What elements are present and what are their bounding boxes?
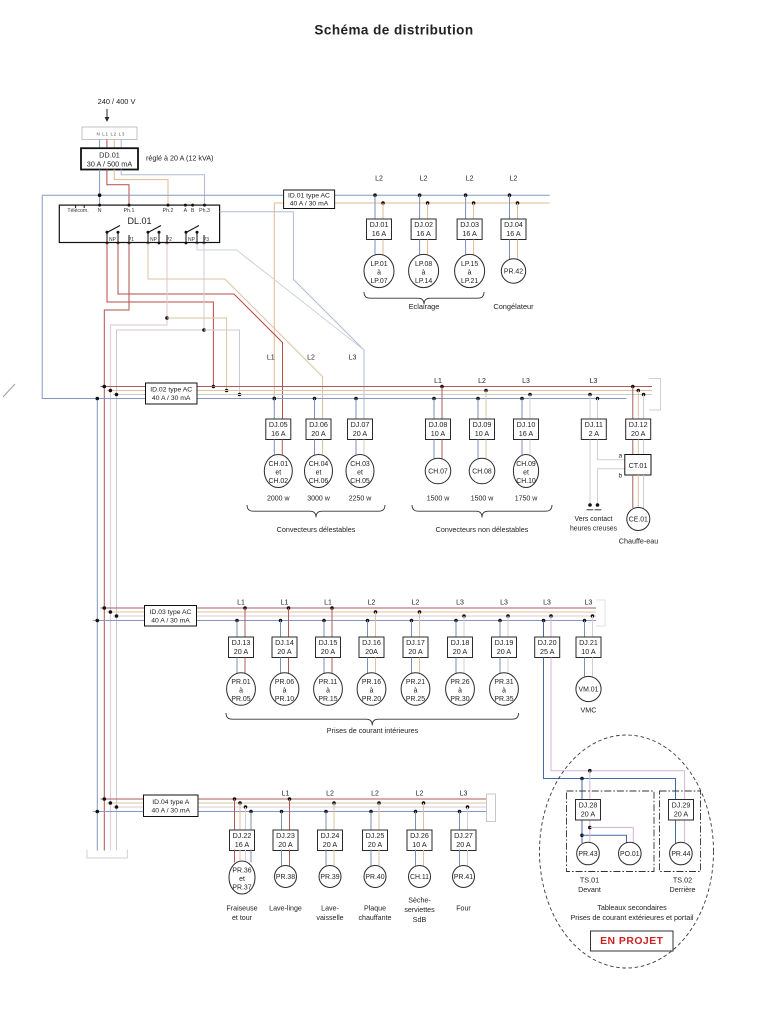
- svg-text:à: à: [414, 688, 418, 695]
- svg-text:CH.03: CH.03: [350, 461, 370, 468]
- node L3 tap DJ.12: [642, 393, 646, 397]
- wire phase to load: [378, 850, 380, 867]
- svg-text:et: et: [316, 470, 322, 477]
- breaker DJ.23 20 A: [273, 830, 298, 851]
- svg-text:ID.03 type AC: ID.03 type AC: [150, 609, 192, 616]
- wire N bus row1: [42, 194, 549, 196]
- svg-text:L3: L3: [543, 600, 551, 607]
- svg-text:vaisselle: vaisselle: [316, 914, 343, 922]
- svg-text:10 A: 10 A: [475, 429, 490, 438]
- wire L1 bus row2: [101, 386, 653, 388]
- svg-text:à: à: [239, 688, 243, 695]
- break mark: [3, 384, 15, 397]
- breaker DJ.05 16 A: [266, 419, 291, 440]
- svg-text:heures creuses: heures creuses: [570, 526, 618, 533]
- node N tap DJ.21: [583, 619, 587, 623]
- svg-text:CT.01: CT.01: [629, 461, 648, 470]
- wire L3 DJ.29 to PR.44: [684, 821, 686, 844]
- wire L3 CT.01 to CE.01: [643, 475, 645, 508]
- wire phase drop: [467, 807, 469, 830]
- wire L2 bus row3: [107, 611, 597, 613]
- wire L2 DD.01 to DL.01 Ph.2: [114, 170, 168, 206]
- node N tap: [324, 810, 328, 814]
- svg-text:CE.01: CE.01: [629, 516, 648, 523]
- panel TS.01 frame: [567, 791, 655, 872]
- node N tap: [98, 193, 102, 197]
- svg-text:PR.06: PR.06: [275, 679, 294, 686]
- node N tap: [235, 619, 239, 623]
- svg-text:L1: L1: [267, 355, 275, 362]
- wire phase drop: [441, 387, 443, 420]
- wire to heures creuses contact: [589, 440, 591, 506]
- wire phase to load: [419, 658, 421, 675]
- bus end bracket row3: [596, 600, 605, 626]
- wire L2 drop: [517, 203, 519, 219]
- svg-text:ID.04 type A: ID.04 type A: [152, 799, 189, 806]
- wire N bus row3: [93, 620, 596, 622]
- node L3 tap DJ.21: [591, 614, 595, 618]
- wire N drop: [509, 195, 511, 219]
- wire N bus row2: [42, 398, 626, 400]
- wire phase drop: [288, 608, 290, 637]
- wire phase to load: [375, 658, 377, 675]
- svg-text:L2: L2: [466, 176, 474, 183]
- svg-text:CH.07: CH.07: [428, 468, 448, 475]
- node N branch TS.01: [580, 777, 584, 781]
- wire L2 CT.01 to CE.01: [637, 475, 639, 508]
- RCD ID.01: [284, 190, 335, 209]
- node L3 bus feed: [238, 393, 242, 397]
- svg-text:20 A: 20 A: [277, 647, 292, 656]
- wire N bus row4: [93, 811, 487, 813]
- svg-text:L1: L1: [237, 600, 245, 607]
- breaker DJ.26 10 A: [407, 830, 432, 851]
- svg-text:PR.37: PR.37: [232, 885, 251, 892]
- svg-text:PR.36: PR.36: [232, 867, 251, 874]
- svg-text:EN PROJET: EN PROJET: [600, 936, 664, 947]
- wire N drop: [236, 621, 238, 638]
- svg-text:3000 w: 3000 w: [307, 495, 331, 502]
- wire L2 feeder: [110, 243, 167, 851]
- wire phase to load: [423, 850, 425, 867]
- svg-text:L2: L2: [368, 600, 376, 607]
- svg-text:N: N: [98, 208, 102, 214]
- node feeder tap row4: [103, 797, 107, 801]
- wire L3 into DD.01: [120, 140, 122, 149]
- wire L3 drop DJ.20: [550, 616, 552, 637]
- load CH.11: [409, 866, 431, 888]
- wire phase to load: [333, 850, 335, 867]
- breaker DJ.17 20 A: [403, 637, 428, 658]
- wire L1 to bus row2: [107, 243, 213, 387]
- wire N to load: [521, 440, 523, 457]
- wire N to load: [499, 658, 501, 675]
- node N tap: [476, 397, 480, 401]
- svg-text:LP.01: LP.01: [370, 261, 387, 268]
- breaker DJ.22 16A three-phase: [233, 797, 237, 801]
- wire phase drop: [419, 612, 421, 637]
- wire N feeder: [96, 399, 98, 851]
- svg-text:et: et: [357, 470, 363, 477]
- node L2 tap: [472, 201, 476, 205]
- svg-text:Lave-: Lave-: [321, 905, 339, 913]
- svg-text:NP: NP: [150, 237, 158, 243]
- wire L2 to DJ.06: [148, 243, 323, 419]
- svg-text:PR.30: PR.30: [450, 696, 469, 703]
- wire L2 drop: [427, 203, 429, 219]
- svg-text:L2: L2: [307, 355, 315, 362]
- svg-text:Ph.3: Ph.3: [199, 208, 210, 214]
- node N tap: [322, 619, 326, 623]
- svg-text:CH.04: CH.04: [309, 461, 329, 468]
- wire N to DJ.28: [581, 779, 583, 800]
- node feeder tap row3: [96, 619, 100, 623]
- svg-text:20 A: 20 A: [453, 647, 468, 656]
- wire N drop: [521, 399, 523, 420]
- wire N drop: [355, 399, 357, 420]
- wire L2 bus row2: [107, 390, 653, 392]
- node L2 riser junction: [273, 397, 277, 401]
- wire N to load: [370, 850, 372, 867]
- svg-text:PR.10: PR.10: [275, 696, 294, 703]
- EN PROJET box: [591, 931, 674, 951]
- svg-text:Derrière: Derrière: [670, 885, 696, 894]
- svg-text:Ph.2: Ph.2: [163, 208, 174, 214]
- svg-text:serviettes: serviettes: [404, 906, 435, 914]
- node L1 bus feed: [212, 385, 216, 389]
- wire N DJ.28 to PR.43: [581, 821, 583, 844]
- wire phase drop: [378, 803, 380, 830]
- wire N drop: [499, 621, 501, 638]
- wire N into DD.01: [99, 140, 101, 149]
- svg-text:réglé à 20 A (12 kVA): réglé à 20 A (12 kVA): [146, 154, 213, 163]
- node L3 branch TS.01: [588, 769, 592, 773]
- RCD ID.03: [145, 606, 197, 627]
- node L3 tap DJ.20: [549, 614, 553, 618]
- svg-text:Eclairage: Eclairage: [409, 302, 440, 311]
- wire L2 to load: [427, 240, 429, 256]
- supply arrow: [106, 109, 108, 118]
- wire phase to load: [467, 850, 469, 867]
- svg-text:CH.08: CH.08: [472, 468, 492, 475]
- load LP.15 à LP.21: [455, 254, 485, 287]
- wire phase to load: [281, 440, 283, 457]
- load PR.11 à PR.15: [314, 673, 343, 706]
- svg-text:20 A: 20 A: [278, 840, 293, 849]
- brace éclairage group: [364, 292, 484, 304]
- wire L2 bus row4: [107, 802, 488, 804]
- svg-text:PR.01: PR.01: [231, 679, 250, 686]
- node phase tap: [484, 389, 488, 393]
- bus end bracket row2: [649, 379, 661, 411]
- svg-text:Vers contact: Vers contact: [575, 516, 613, 523]
- wire L3 to DJ.07: [197, 243, 364, 350]
- breaker DJ.19 20 A: [492, 637, 517, 658]
- wire phase drop: [333, 803, 335, 830]
- wire L1 DD.01 to DL.01 Ph.1: [107, 170, 129, 206]
- load VM.01 VMC: [576, 676, 601, 701]
- node phase tap: [243, 606, 247, 610]
- svg-text:à: à: [370, 688, 374, 695]
- wire L1 drop DJ.12: [632, 387, 634, 420]
- wire L2 to load: [473, 240, 475, 256]
- load PR.43: [577, 842, 600, 865]
- wire L1 into DD.01: [106, 140, 108, 149]
- node N tap: [369, 810, 373, 814]
- wire L1 bus row3: [101, 607, 597, 609]
- svg-text:1750 w: 1750 w: [515, 495, 539, 502]
- svg-text:PR.16: PR.16: [362, 679, 381, 686]
- node N tap DJ.11: [596, 397, 600, 401]
- svg-text:PR.11: PR.11: [319, 679, 338, 686]
- svg-text:40 A / 30 mA: 40 A / 30 mA: [151, 618, 190, 625]
- breaker DJ.28 20A: [576, 800, 601, 821]
- breaker DJ.03 16 A: [457, 219, 482, 240]
- wire L2 to bus row2: [167, 318, 227, 391]
- svg-text:PR.42: PR.42: [504, 268, 523, 275]
- svg-text:Prises de courant extérieures: Prises de courant extérieures et portail: [570, 913, 693, 922]
- node phase tap: [528, 393, 532, 397]
- wire L3 bus row3: [113, 615, 596, 617]
- wire L3 to PO.01: [590, 828, 634, 844]
- switch P1 in DL.01: [106, 226, 135, 245]
- wire L2 drop: [473, 203, 475, 219]
- wire phase to load: [441, 440, 443, 460]
- svg-text:L2: L2: [371, 791, 379, 798]
- svg-text:LP.08: LP.08: [415, 261, 432, 268]
- svg-text:et: et: [275, 470, 281, 477]
- load PR.01 à PR.05: [227, 673, 256, 706]
- svg-text:16 A: 16 A: [271, 429, 286, 438]
- wire N drop: [477, 399, 479, 420]
- wire phase drop: [375, 612, 377, 637]
- wire phase to load: [322, 440, 324, 457]
- wire N to load: [459, 850, 461, 867]
- breaker DJ.10 16 A: [514, 419, 539, 440]
- breaker DJ.15 20 A: [316, 637, 341, 658]
- svg-text:Convecteurs délestables: Convecteurs délestables: [277, 525, 356, 534]
- main breaker DD.01 30A/500mA: [81, 148, 138, 169]
- feeder end bracket: [87, 850, 127, 859]
- wire phase to load: [244, 658, 246, 675]
- wire N to load: [419, 240, 421, 256]
- load CH.04 et CH.06: [305, 455, 333, 488]
- svg-text:CH.06: CH.06: [309, 478, 329, 485]
- svg-text:et tour: et tour: [232, 914, 253, 922]
- svg-text:L3: L3: [456, 600, 464, 607]
- load CE.01 chauffe-eau: [627, 508, 650, 531]
- svg-text:DL.01: DL.01: [127, 216, 151, 226]
- breaker DJ.12 20A: [626, 419, 651, 440]
- node N tap: [418, 193, 422, 197]
- svg-text:20 A: 20 A: [631, 429, 646, 438]
- wire N to load: [465, 240, 467, 256]
- svg-text:Plaque: Plaque: [364, 905, 386, 913]
- svg-text:L2: L2: [412, 600, 420, 607]
- wire N drop: [323, 621, 325, 638]
- load PO.01: [619, 842, 642, 865]
- svg-text:PR.40: PR.40: [365, 874, 384, 881]
- node L2 tap: [381, 201, 385, 205]
- wire N DD.01 to DL.01: [99, 170, 101, 206]
- wire N drop: [325, 812, 327, 831]
- node L2 tap: [516, 201, 520, 205]
- svg-text:CH.01: CH.01: [269, 461, 289, 468]
- svg-text:PR.21: PR.21: [406, 679, 425, 686]
- wire N drop: [281, 812, 283, 831]
- breaker DJ.14 20 A: [272, 637, 297, 658]
- breaker DJ.01 16 A: [367, 219, 392, 240]
- svg-text:PR.43: PR.43: [578, 851, 597, 858]
- svg-text:PR.38: PR.38: [276, 874, 295, 881]
- svg-text:16 A: 16 A: [416, 229, 431, 238]
- wire N to load: [509, 240, 511, 261]
- wire N to VM.01: [584, 658, 586, 678]
- wire N drop: [374, 195, 376, 219]
- svg-text:PR.39: PR.39: [320, 874, 339, 881]
- node feeder tap row3: [115, 614, 119, 618]
- node phase tap: [422, 801, 426, 805]
- svg-text:20 A: 20 A: [353, 429, 368, 438]
- wire N to load: [415, 850, 417, 867]
- wire N to load: [273, 440, 275, 457]
- node feeder tap row2: [103, 385, 107, 389]
- wire N drop: [459, 812, 461, 831]
- load PR.26 à PR.30: [446, 673, 475, 706]
- bus end terminal row4: [487, 794, 496, 822]
- node phase tap: [287, 606, 291, 610]
- wire pilot A-B to DJ.07: [220, 212, 364, 419]
- node L1 tap DJ.12: [631, 385, 635, 389]
- svg-text:Chauffe-eau: Chauffe-eau: [619, 537, 658, 546]
- svg-text:PR.26: PR.26: [450, 679, 469, 686]
- breaker DJ.27 20 A: [451, 830, 476, 851]
- svg-text:2250 w: 2250 w: [349, 495, 373, 502]
- load LP.08 à LP.14: [409, 254, 439, 287]
- wire phase drop: [244, 608, 246, 637]
- wire N drop: [273, 399, 275, 420]
- svg-text:Tableaux secondaires: Tableaux secondaires: [597, 903, 667, 912]
- wire N drop: [367, 621, 369, 638]
- svg-text:PR.44: PR.44: [671, 851, 690, 858]
- svg-text:CH.09: CH.09: [516, 461, 536, 468]
- load PR.06 à PR.10: [270, 673, 299, 706]
- svg-text:20 A: 20 A: [323, 840, 338, 849]
- svg-text:b: b: [618, 473, 622, 480]
- wire L3 DD.01 to DL.01 Ph.3: [121, 170, 204, 206]
- svg-text:20 A: 20 A: [321, 647, 336, 656]
- breaker DJ.16 20A: [359, 637, 384, 658]
- svg-text:PO.01: PO.01: [620, 851, 640, 858]
- node phase tap: [466, 805, 470, 809]
- svg-text:à: à: [468, 270, 472, 277]
- svg-text:Schéma de distribution: Schéma de distribution: [314, 23, 473, 38]
- wire L2 bus row1: [274, 202, 549, 204]
- svg-text:PR.15: PR.15: [318, 696, 337, 703]
- svg-text:NP: NP: [109, 237, 117, 243]
- svg-text:PR.31: PR.31: [494, 679, 513, 686]
- svg-text:Télécom.: Télécom.: [67, 208, 88, 214]
- svg-text:Sèche-: Sèche-: [408, 897, 431, 905]
- svg-text:20 A: 20 A: [456, 840, 471, 849]
- svg-text:10 A: 10 A: [581, 647, 596, 656]
- load PR.36 et PR.37: [229, 861, 255, 894]
- wire N drop: [465, 195, 467, 219]
- wire N left loop: [42, 195, 97, 398]
- svg-text:L3: L3: [500, 600, 508, 607]
- svg-text:L3: L3: [590, 378, 598, 385]
- node feeder tap row4: [115, 805, 119, 809]
- svg-text:10 A: 10 A: [431, 429, 446, 438]
- node phase tap: [440, 385, 444, 389]
- wire phase to load: [529, 440, 531, 457]
- svg-text:ID.02 type AC: ID.02 type AC: [150, 387, 192, 394]
- svg-text:40 A / 30 mA: 40 A / 30 mA: [152, 395, 191, 402]
- wire N to load: [411, 658, 413, 675]
- wire phase drop: [507, 616, 509, 637]
- wire N to load: [374, 240, 376, 256]
- contact dash 1: [587, 509, 594, 511]
- wire L2 drop: [382, 203, 384, 219]
- load shedder DL.01: [59, 205, 219, 242]
- load PR.41: [453, 866, 475, 888]
- svg-text:20 A: 20 A: [497, 647, 512, 656]
- svg-text:Convecteurs non délestables: Convecteurs non délestables: [436, 525, 529, 534]
- node feeder tap row4: [96, 810, 100, 814]
- load CH.09: [513, 455, 538, 488]
- svg-text:PR.41: PR.41: [454, 874, 473, 881]
- svg-text:chauffante: chauffante: [358, 914, 391, 922]
- node N tap: [520, 397, 524, 401]
- svg-text:16 A: 16 A: [462, 229, 477, 238]
- wire phase drop: [529, 395, 531, 420]
- load PR.42: [501, 259, 525, 283]
- svg-text:à: à: [422, 270, 426, 277]
- svg-text:30 A / 500 mA: 30 A / 500 mA: [87, 160, 133, 169]
- svg-text:TS.01: TS.01: [580, 876, 599, 885]
- svg-text:20 A: 20 A: [674, 809, 689, 818]
- breaker DJ.22 16A: [230, 830, 255, 851]
- svg-text:CH.11: CH.11: [410, 874, 429, 881]
- svg-text:L2: L2: [416, 791, 424, 798]
- wire phase drop: [485, 391, 487, 420]
- node N tap: [280, 810, 284, 814]
- DL.01 terminals: [67, 204, 210, 214]
- svg-text:L2: L2: [478, 378, 486, 385]
- svg-text:20 A: 20 A: [368, 840, 383, 849]
- svg-text:1500 w: 1500 w: [471, 495, 495, 502]
- node phase tap: [330, 606, 334, 610]
- node N branch PO.01: [580, 834, 584, 838]
- wire phase to load: [463, 658, 465, 675]
- svg-text:16 A: 16 A: [519, 429, 534, 438]
- svg-text:à: à: [283, 688, 287, 695]
- node phase tap: [288, 797, 292, 801]
- svg-text:10 A: 10 A: [412, 840, 427, 849]
- svg-text:a: a: [618, 453, 622, 460]
- svg-text:L1: L1: [281, 600, 289, 607]
- node N tap: [354, 397, 358, 401]
- wire L3 drop DJ.21: [592, 616, 594, 637]
- projected area ellipse: [540, 735, 714, 968]
- wire phase to load: [289, 850, 291, 867]
- svg-text:Prises de courant intérieures: Prises de courant intérieures: [327, 726, 419, 735]
- load PR.16 à PR.20: [357, 673, 386, 706]
- svg-text:L2: L2: [326, 791, 334, 798]
- wire N drop: [419, 195, 421, 219]
- wire N drop: [433, 399, 435, 420]
- wire N drop: [280, 621, 282, 638]
